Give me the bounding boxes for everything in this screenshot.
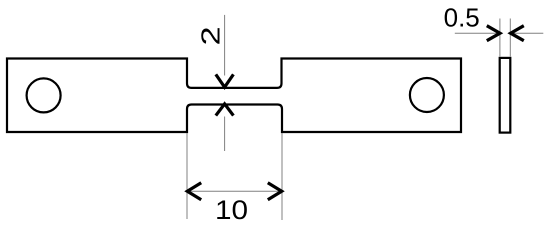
dimension 0.5: right arrowhead pointing left <box>511 26 524 41</box>
dimension 0.5: right leader line <box>511 32 543 34</box>
dimension 2: lower tail line <box>224 117 226 152</box>
dimension 10: dimension line <box>187 190 282 192</box>
dimension 10: right extension line <box>281 133 283 220</box>
dimension 0.5: left arrowhead pointing right <box>487 26 500 41</box>
dimension 10: right arrowhead <box>268 183 282 200</box>
flat strip part outline (top view) <box>7 59 461 133</box>
dimension 0.5: right extension line <box>509 19 511 57</box>
svg-text:2: 2 <box>196 26 225 45</box>
dimension 0.5: left extension line <box>499 19 501 57</box>
right hole <box>410 78 444 112</box>
svg-text:0.5: 0.5 <box>444 2 480 32</box>
left hole <box>27 78 61 112</box>
dimension 10: left arrowhead <box>187 183 201 200</box>
svg-text:10: 10 <box>215 195 248 225</box>
dimension 2: upper line <box>224 15 226 76</box>
dimension 2: up arrowhead <box>216 104 234 116</box>
side view thin rectangle <box>500 58 511 133</box>
dimension 2: down arrowhead <box>216 74 234 87</box>
dimension 0.5: left leader line <box>455 32 500 34</box>
dimension 10: left extension line <box>186 133 188 219</box>
